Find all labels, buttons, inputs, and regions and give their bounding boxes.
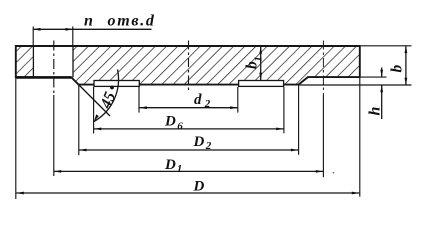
bolt hole right edge <box>72 46 74 77</box>
svg-text:h: h <box>367 107 384 116</box>
n otv.d extension line left <box>32 27 34 46</box>
bolt hole centerline / D1 extension left <box>53 41 55 96</box>
h upper tail with down arrow <box>381 68 383 78</box>
flange body section (hatched) <box>16 46 360 85</box>
45 deg dimension arc <box>94 70 119 122</box>
b top extension line <box>361 45 412 47</box>
D extension line left <box>15 78 17 200</box>
D right arrow <box>352 192 359 195</box>
45 deg chamfer extension line <box>73 79 110 116</box>
d2 left arrow <box>140 106 147 109</box>
n otv.d right arrow <box>66 28 73 31</box>
svg-text:45: 45 <box>97 90 119 112</box>
D1 right arrow <box>316 170 323 173</box>
n otv.d extension line right <box>72 27 74 46</box>
degree dot <box>110 86 114 90</box>
svg-text:D: D <box>164 157 176 173</box>
D2 left arrow <box>79 149 86 152</box>
D extension line right <box>359 78 361 197</box>
D2 dimension line <box>79 149 298 151</box>
D6 left arrow <box>94 128 101 131</box>
thick bottom line under bolt hole <box>16 76 71 79</box>
svg-text:b: b <box>389 65 406 73</box>
groove (right section) <box>239 81 284 87</box>
45 deg arc arrow <box>94 114 99 121</box>
D6 extension line right <box>283 87 285 133</box>
d2 extension line right <box>237 87 239 113</box>
groove (left section) <box>94 81 139 87</box>
b bottom arrow <box>405 78 408 85</box>
D6 dimension line <box>94 128 284 130</box>
D6 extension line left <box>93 87 95 134</box>
n otv.d left arrow <box>33 28 40 31</box>
D1 left arrow <box>54 170 61 173</box>
b dimension line <box>405 46 407 85</box>
svg-text:2: 2 <box>204 98 211 110</box>
b/h face extension line <box>300 84 412 86</box>
h lower tail with up arrow <box>381 85 383 119</box>
bolt hole (white gap in section) <box>33 47 73 76</box>
D dimension line <box>16 192 359 194</box>
D1 dimension line <box>54 170 323 172</box>
D2 right arrow <box>291 149 298 152</box>
svg-text:отв.d: отв.d <box>108 13 156 30</box>
n otv.d dimension line with underline <box>33 28 151 30</box>
svg-text:d: d <box>194 92 202 108</box>
D2 extension line left <box>78 86 80 156</box>
svg-text:2: 2 <box>205 140 212 152</box>
h rim extension line <box>361 76 387 78</box>
svg-text:n: n <box>84 13 93 30</box>
b1 dimension line <box>260 46 262 80</box>
d2 right arrow <box>230 106 237 109</box>
flange axis centerline <box>188 41 190 93</box>
d2 extension line left <box>138 87 140 113</box>
svg-text:6: 6 <box>177 120 183 132</box>
D6 right arrow <box>276 128 283 131</box>
b top arrow <box>405 46 408 53</box>
D left arrow <box>17 192 24 195</box>
speck near D1 line <box>333 172 335 174</box>
svg-text:D: D <box>164 114 176 130</box>
b1 bottom arrow <box>259 73 262 80</box>
bolt circle centerline right / D1 extension <box>322 41 324 96</box>
d2 dimension line <box>140 107 238 109</box>
svg-text:D: D <box>193 134 205 150</box>
svg-text:D: D <box>193 178 205 194</box>
bolt hole left edge <box>32 46 34 77</box>
D2 extension line right <box>298 86 300 155</box>
b1 top arrow <box>259 47 262 54</box>
svg-text:1: 1 <box>177 163 183 175</box>
